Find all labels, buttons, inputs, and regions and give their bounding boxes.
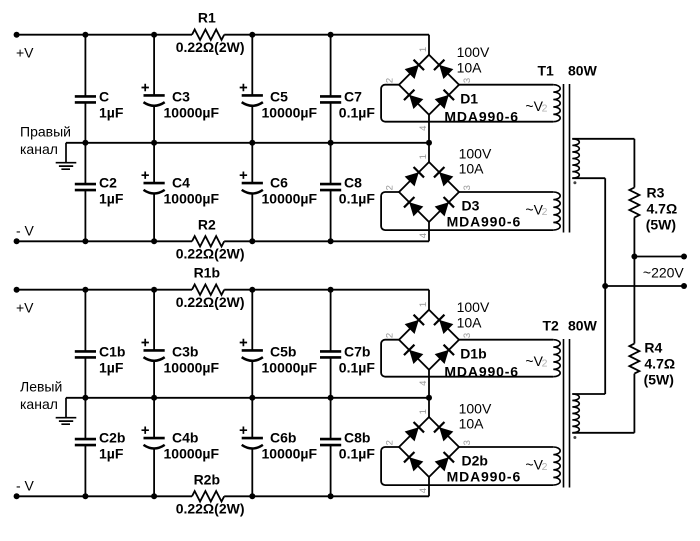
wire loop bridge D1b AC return [381, 340, 553, 377]
wire column1 lower (right channel) [84, 190, 86, 241]
svg-text:D1b: D1b [460, 346, 486, 362]
wire column1 upper (left channel) [84, 290, 86, 352]
svg-text:MDA990-6: MDA990-6 [447, 468, 521, 484]
wire T1 primary bottom lead [572, 177, 605, 179]
wire column middle at x=154.1 (right channel) [153, 105, 155, 183]
svg-text:10000µF: 10000µF [164, 359, 220, 375]
capacitor C3b [144, 349, 165, 352]
wire column upper at x=252.3 (right channel) [251, 35, 253, 95]
terminal -V (right channel) [14, 238, 20, 244]
svg-text:MDA990-6: MDA990-6 [447, 213, 521, 229]
node -V rail junction col1 (right channel) [82, 238, 88, 244]
resistor R2b [192, 491, 224, 501]
wire loop bridge D3 AC to secondary ~V2 [459, 191, 553, 193]
resistor R1b [192, 285, 224, 295]
node +V rail junction col2 (left channel) [151, 287, 157, 293]
capacitor C2 [75, 183, 96, 186]
wire column4 middle (right channel) [330, 103, 332, 184]
node mid rail junction col2 (left channel) [151, 395, 157, 401]
wire column1 lower (left channel) [84, 445, 86, 496]
svg-text:10000µF: 10000µF [262, 445, 318, 461]
wire column middle at x=252.3 (left channel) [251, 360, 253, 438]
wire +V rail right segment (right channel) [224, 34, 429, 36]
resistor R1 [192, 30, 224, 40]
node -V rail junction col3 (right channel) [249, 238, 255, 244]
svg-text:0.22Ω(2W): 0.22Ω(2W) [176, 294, 245, 310]
terminal +V (left channel) [14, 287, 20, 293]
bridge rectifier D1b [384, 302, 473, 386]
wire -V rail left segment (right channel) [17, 240, 192, 242]
node mid rail junction col1 (left channel) [82, 395, 88, 401]
svg-text:4.7Ω: 4.7Ω [644, 356, 675, 372]
wire column upper at x=252.3 (left channel) [251, 290, 253, 351]
capacitor C7 [320, 95, 341, 98]
svg-text:10000µF: 10000µF [164, 190, 220, 206]
node +V rail junction col1 (right channel) [82, 32, 88, 38]
svg-text:10000µF: 10000µF [262, 190, 318, 206]
svg-text:10000µF: 10000µF [262, 104, 318, 120]
wire bridge D2b DC+ lead [428, 398, 430, 417]
wire column lower at x=154.1 (left channel) [153, 448, 155, 497]
svg-text:канал: канал [20, 141, 58, 157]
node mains column B tap [602, 283, 608, 289]
svg-text:0.1µF: 0.1µF [339, 190, 376, 206]
wire bridge D3 DC+ lead [428, 143, 430, 162]
svg-text:80W: 80W [568, 62, 598, 78]
node mid rail junction col3 (left channel) [249, 395, 255, 401]
svg-text:C: C [99, 88, 109, 104]
svg-text:C6: C6 [270, 175, 288, 191]
terminal -V (left channel) [14, 493, 20, 499]
wire column lower at x=154.1 (right channel) [153, 193, 155, 242]
ground symbol (left channel) [56, 398, 77, 424]
wire column4 lower (right channel) [330, 190, 332, 241]
svg-text:100V: 100V [459, 401, 492, 417]
svg-text:R3: R3 [647, 184, 665, 200]
wire -V rail left segment (left channel) [17, 495, 192, 497]
svg-text:C1b: C1b [99, 343, 125, 359]
transformer T2 core [564, 339, 570, 488]
wire T1 primary top lead [572, 138, 634, 140]
node +V rail junction col4 (right channel) [328, 32, 334, 38]
wire mains line A [634, 256, 684, 258]
svg-text:10000µF: 10000µF [164, 445, 220, 461]
svg-text:C4b: C4b [172, 430, 198, 446]
resistor R2 [192, 236, 224, 246]
capacitor C [75, 95, 96, 98]
node -V rail junction col3 (left channel) [249, 493, 255, 499]
svg-text:D3: D3 [462, 197, 480, 213]
transformer T1 upper secondary winding [553, 85, 560, 122]
wire R3 top lead [633, 139, 635, 188]
svg-text:- V: - V [16, 477, 35, 493]
svg-text:C5b: C5b [270, 343, 296, 359]
capacitor C1b [75, 350, 96, 353]
capacitor C2b [75, 438, 96, 441]
svg-text:0.1µF: 0.1µF [339, 359, 376, 375]
capacitor C3 [144, 94, 165, 97]
wire column4 upper (left channel) [330, 290, 332, 352]
terminal mains A [681, 254, 687, 260]
ground symbol (right channel) [56, 143, 77, 169]
transformer T2 lower secondary winding [553, 447, 560, 485]
wire bridge D1 DC+ lead [428, 35, 430, 55]
wire mains line B [605, 285, 684, 287]
svg-text:C7: C7 [344, 88, 362, 104]
svg-text:2: 2 [542, 461, 548, 473]
node mid rail / bridge junction (left channel) [426, 395, 432, 401]
svg-text:1µF: 1µF [99, 445, 124, 461]
svg-text:0.1µF: 0.1µF [339, 104, 376, 120]
wire column middle at x=154.1 (left channel) [153, 360, 155, 438]
wire -V rail right segment (right channel) [224, 240, 429, 242]
svg-text:Левый: Левый [20, 379, 62, 395]
wire R4 top lead [633, 257, 635, 344]
node -V rail junction col4 (left channel) [328, 493, 334, 499]
svg-text:C4: C4 [172, 175, 190, 191]
svg-text:- V: - V [16, 222, 35, 238]
svg-text:10A: 10A [457, 315, 483, 331]
wire ground mid rail (right channel) [66, 142, 429, 144]
wire T2 primary top lead [572, 393, 605, 395]
wire R3 bottom lead [633, 218, 635, 257]
transformer T2 upper secondary winding [553, 340, 560, 377]
transformer T1 lower secondary winding [553, 192, 560, 230]
svg-text:1µF: 1µF [99, 359, 124, 375]
svg-text:4.7Ω: 4.7Ω [647, 200, 678, 216]
wire loop bridge D1 AC return [381, 85, 553, 122]
wire bridge D2b DC- lead [428, 477, 430, 496]
svg-text:R2b: R2b [194, 472, 220, 488]
wire column4 upper (right channel) [330, 35, 332, 96]
svg-text:+V: +V [16, 45, 34, 61]
transformer T1 primary winding [572, 139, 579, 178]
svg-text:Правый: Правый [20, 124, 71, 140]
wire column4 lower (left channel) [330, 445, 332, 496]
svg-text:(5W): (5W) [646, 216, 676, 232]
wire loop bridge D2b AC to secondary ~V2 [459, 446, 553, 448]
svg-text:10000µF: 10000µF [164, 104, 220, 120]
bridge rectifier D2b [384, 409, 473, 493]
resistor R3 [629, 188, 639, 218]
svg-text:T1: T1 [538, 62, 555, 78]
wire column1 upper (right channel) [84, 35, 86, 96]
capacitor C7b [320, 350, 341, 353]
svg-text:C2b: C2b [99, 430, 125, 446]
wire +V rail right segment (left channel) [224, 289, 429, 291]
svg-text:C8: C8 [344, 175, 362, 191]
svg-text:10000µF: 10000µF [262, 359, 318, 375]
capacitor C8b [320, 438, 341, 441]
svg-text:0.22Ω(2W): 0.22Ω(2W) [176, 246, 245, 262]
svg-text:10A: 10A [459, 416, 485, 432]
svg-text:C5: C5 [270, 88, 288, 104]
node +V rail junction col2 (right channel) [151, 32, 157, 38]
svg-text:C3b: C3b [172, 343, 198, 359]
node -V rail junction col2 (left channel) [151, 493, 157, 499]
svg-text:100V: 100V [459, 146, 492, 162]
node -V rail junction col4 (right channel) [328, 238, 334, 244]
svg-text:R1b: R1b [194, 265, 220, 281]
node -V rail junction col2 (right channel) [151, 238, 157, 244]
wire column middle at x=252.3 (right channel) [251, 105, 253, 183]
wire bridge D1 DC- lead [428, 115, 430, 143]
svg-text:0.22Ω(2W): 0.22Ω(2W) [176, 501, 245, 517]
svg-text:C3: C3 [172, 88, 190, 104]
node mid rail junction col4 (left channel) [328, 395, 334, 401]
svg-text:1µF: 1µF [99, 104, 124, 120]
svg-text:C8b: C8b [344, 430, 370, 446]
svg-text:C2: C2 [99, 175, 117, 191]
node -V rail junction col1 (left channel) [82, 493, 88, 499]
wire column upper at x=154.1 (left channel) [153, 290, 155, 351]
wire bridge D1b DC+ lead [428, 290, 430, 310]
capacitor C4 [144, 182, 165, 185]
svg-text:R1: R1 [198, 10, 216, 26]
terminal mains B [681, 283, 687, 289]
svg-text:0.1µF: 0.1µF [339, 445, 376, 461]
phase dot T2 primary [573, 436, 576, 439]
svg-text:+V: +V [16, 300, 34, 316]
capacitor C6 [242, 182, 263, 185]
wire column1 middle (left channel) [84, 358, 86, 439]
svg-text:R2: R2 [198, 217, 216, 233]
wire bridge D1b DC- lead [428, 370, 430, 398]
capacitor C5b [242, 349, 263, 352]
wire column upper at x=154.1 (right channel) [153, 35, 155, 95]
capacitor C6b [242, 437, 263, 440]
svg-text:80W: 80W [568, 317, 598, 333]
svg-text:D2b: D2b [462, 452, 488, 468]
wire mains column B (T1 primary to T2 primary) [604, 178, 606, 394]
wire loop bridge D2b AC return [381, 447, 553, 485]
wire T2 primary bottom lead [572, 432, 634, 434]
wire loop bridge D1 AC to secondary ~V2 [459, 84, 553, 86]
wire loop bridge D1b AC to secondary ~V2 [459, 339, 553, 341]
svg-text:1µF: 1µF [99, 190, 124, 206]
svg-text:2: 2 [542, 103, 548, 115]
svg-text:D1: D1 [460, 91, 478, 107]
svg-text:10A: 10A [457, 60, 483, 76]
wire bridge D3 DC- lead [428, 222, 430, 241]
wire R4 bottom lead [633, 374, 635, 433]
svg-text:100V: 100V [457, 44, 490, 60]
resistor R4 [629, 344, 639, 374]
node mid rail junction col2 (right channel) [151, 140, 157, 146]
wire column4 middle (left channel) [330, 358, 332, 439]
node mains A junction [631, 254, 637, 260]
wire +V rail left segment (right channel) [17, 34, 192, 36]
wire +V rail left segment (left channel) [17, 289, 192, 291]
wire column lower at x=252.3 (right channel) [251, 193, 253, 242]
bridge rectifier D3 [384, 154, 473, 238]
svg-text:канал: канал [20, 396, 58, 412]
svg-text:C7b: C7b [344, 343, 370, 359]
capacitor C8 [320, 183, 341, 186]
node mid rail / bridge junction (right channel) [426, 140, 432, 146]
terminal +V (right channel) [14, 32, 20, 38]
capacitor C5 [242, 94, 263, 97]
node +V rail junction col1 (left channel) [82, 287, 88, 293]
transformer T1 core [564, 84, 570, 233]
svg-text:~220V: ~220V [643, 264, 685, 280]
phase dot T1 primary [573, 181, 576, 184]
svg-text:T2: T2 [543, 317, 560, 333]
node +V rail junction col4 (left channel) [328, 287, 334, 293]
svg-text:2: 2 [542, 358, 548, 370]
svg-text:C6b: C6b [270, 430, 296, 446]
wire column lower at x=252.3 (left channel) [251, 448, 253, 497]
svg-text:10A: 10A [459, 161, 485, 177]
svg-text:0.22Ω(2W): 0.22Ω(2W) [176, 39, 245, 55]
bridge rectifier D1 [384, 47, 473, 131]
svg-text:2: 2 [542, 206, 548, 218]
wire column1 middle (right channel) [84, 103, 86, 184]
wire -V rail right segment (left channel) [224, 495, 429, 497]
wire ground mid rail (left channel) [66, 397, 429, 399]
node +V rail junction col3 (right channel) [249, 32, 255, 38]
capacitor C4b [144, 437, 165, 440]
svg-text:R4: R4 [644, 340, 662, 356]
node mid rail junction col4 (right channel) [328, 140, 334, 146]
node +V rail junction col3 (left channel) [249, 287, 255, 293]
transformer T2 primary winding [572, 394, 579, 433]
wire loop bridge D3 AC return [381, 192, 553, 230]
svg-text:(5W): (5W) [644, 372, 674, 388]
svg-text:100V: 100V [457, 299, 490, 315]
node mid rail junction col1 (right channel) [82, 140, 88, 146]
node mid rail junction col3 (right channel) [249, 140, 255, 146]
